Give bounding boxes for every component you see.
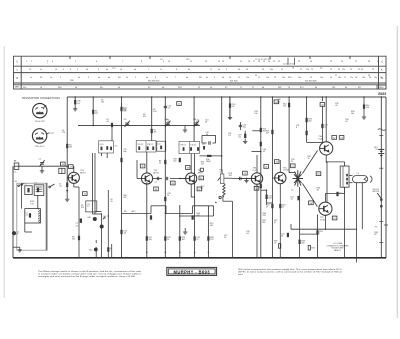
svg-text:5k6: 5k6 — [123, 110, 126, 112]
schematic right border — [385, 97, 387, 258]
TS1 voltage box left — [61, 162, 66, 166]
svg-text:0.1: 0.1 — [168, 108, 171, 110]
svg-text:L9: L9 — [262, 69, 264, 71]
wire C18 feed — [229, 97, 231, 119]
svg-text:↓: ↓ — [47, 62, 48, 65]
svg-text:27: 27 — [355, 61, 357, 63]
svg-text:L11: L11 — [202, 144, 205, 146]
svg-text:25: 25 — [196, 239, 198, 241]
capacitor C16t — [239, 125, 242, 126]
svg-text:19a: 19a — [374, 77, 377, 79]
svg-text:20: 20 — [268, 61, 270, 63]
svg-text:C9: C9 — [114, 145, 116, 147]
svg-text:12: 12 — [274, 243, 276, 245]
resistor R30 — [363, 97, 365, 104]
svg-text:28: 28 — [368, 61, 370, 63]
svg-text:OC81D: OC81D — [283, 170, 290, 172]
TS6 voltage boxes — [332, 136, 337, 140]
svg-text:9V: 9V — [375, 226, 378, 228]
agc comp a — [150, 215, 152, 219]
svg-text:L2: L2 — [55, 69, 57, 71]
wire af coupling2 — [232, 178, 254, 180]
node dot aerial-bus — [66, 165, 68, 167]
short link C19-R20 — [252, 130, 260, 132]
wire coupling TS2-TS3 — [153, 178, 162, 180]
svg-text:.01: .01 — [290, 199, 293, 201]
capacitor C15 — [164, 106, 167, 107]
svg-text:C: C — [381, 59, 383, 63]
IFT1 coil blob b — [147, 146, 149, 150]
resistor R35 — [120, 158, 122, 162]
agc line — [122, 213, 152, 215]
svg-text:L.W.: L.W. — [30, 203, 34, 205]
svg-text:B693: B693 — [378, 92, 386, 96]
svg-text:470: 470 — [196, 215, 199, 217]
table label column divider — [20, 56, 22, 89]
emitter resistor R11 — [146, 236, 148, 240]
junction dots on top rail — [121, 96, 382, 98]
svg-text:8d: 8d — [315, 87, 317, 89]
svg-text:6a: 6a — [106, 69, 108, 71]
wire bus x208 lower — [207, 206, 209, 258]
svg-text:.05: .05 — [106, 121, 109, 123]
wire det horizontal — [252, 151, 261, 153]
svg-text:6b: 6b — [134, 69, 136, 71]
svg-text:PAGE 7): PAGE 7) — [334, 249, 341, 252]
TS7 emitter wire — [324, 193, 326, 202]
capacitor C19 — [244, 134, 246, 138]
svg-text:2: 2 — [31, 61, 32, 63]
osc coil blob a — [101, 147, 103, 151]
svg-text:.04: .04 — [77, 103, 80, 105]
svg-text:120: 120 — [210, 239, 213, 241]
svg-text:50: 50 — [167, 195, 169, 197]
svg-text:C2: C2 — [155, 182, 157, 184]
svg-text:C6: C6 — [124, 119, 126, 121]
svg-text:.01: .01 — [232, 106, 235, 108]
svg-text:7: 7 — [148, 69, 149, 71]
svg-text:10: 10 — [246, 69, 248, 71]
svg-text:9a: 9a — [218, 69, 220, 71]
resistor R5 — [92, 110, 94, 114]
svg-text:R14: R14 — [288, 77, 291, 79]
volume jack circle — [219, 196, 221, 198]
svg-text:23: 23 — [298, 61, 300, 63]
svg-text:12: 12 — [258, 77, 260, 79]
wire TS5 base net — [272, 177, 274, 179]
svg-text:5: 5 — [75, 61, 76, 63]
svg-text:17B 2.2: 17B 2.2 — [180, 145, 186, 147]
svg-text:S1b: S1b — [58, 87, 61, 89]
svg-text:7d: 7d — [288, 87, 290, 89]
ground mid x185 — [184, 228, 186, 232]
svg-text:2.2: 2.2 — [87, 206, 89, 208]
electrolytic C41 — [100, 225, 104, 229]
svg-text:6d: 6d — [262, 87, 264, 89]
svg-text:T3: T3 — [350, 69, 352, 71]
left border ground stub — [13, 246, 20, 248]
svg-text:9V: 9V — [375, 149, 378, 151]
svg-text:17B 2.2: 17B 2.2 — [137, 144, 143, 146]
svg-text:LS: LS — [357, 173, 360, 175]
resistor R4b — [66, 144, 68, 148]
svg-text:9a: 9a — [206, 77, 208, 79]
svg-text:14: 14 — [338, 69, 340, 71]
svg-text:17B 2.2: 17B 2.2 — [190, 145, 196, 147]
transistor pinout TS1-TS2 — [33, 103, 47, 117]
svg-text:C15: C15 — [186, 59, 189, 61]
svg-text:10k: 10k — [254, 113, 257, 115]
svg-text:4d: 4d — [162, 87, 164, 89]
svg-text:S1c: S1c — [100, 87, 103, 89]
table row C entries — [26, 56, 379, 65]
svg-text:M1: M1 — [358, 87, 361, 89]
osc coil blob c — [110, 147, 112, 151]
svg-text:AGC: AGC — [132, 210, 137, 213]
wire C21 link — [261, 189, 267, 191]
svg-text:AE: AE — [14, 160, 17, 163]
svg-text:7: 7 — [122, 61, 123, 63]
svg-text:1a: 1a — [30, 77, 32, 79]
tuner inner wire c — [45, 183, 47, 250]
svg-text:.04: .04 — [195, 122, 198, 124]
TS5 voltage box above — [274, 160, 279, 164]
svg-text:6: 6 — [98, 69, 99, 71]
TS2 voltage box above — [140, 164, 145, 168]
svg-text:16: 16 — [205, 122, 207, 124]
tuner inner wire a — [20, 183, 22, 208]
svg-text:47k: 47k — [143, 116, 146, 118]
svg-text:25: 25 — [330, 61, 332, 63]
svg-text:rectangles and were measured o: rectangles and were measured on the B ra… — [38, 275, 136, 278]
svg-text:11: 11 — [281, 69, 283, 71]
battery rail mark t3 — [379, 221, 383, 223]
table row R entries — [30, 75, 382, 83]
svg-text:C2 C5 C9 C13 C17: C2 C5 C9 C13 C17 — [255, 59, 271, 61]
TS4 base stub — [238, 178, 251, 180]
svg-text:OC81: OC81 — [320, 219, 325, 221]
wire bus x165 — [164, 97, 166, 258]
svg-text:16: 16 — [292, 68, 294, 70]
transistor TS4 — [251, 173, 262, 184]
svg-text:+: + — [216, 193, 218, 195]
svg-text:18: 18 — [258, 61, 260, 63]
svg-text:5b: 5b — [86, 69, 88, 71]
loudspeaker caption block — [326, 243, 349, 252]
svg-text:400: 400 — [277, 101, 280, 103]
svg-text:T1: T1 — [300, 69, 302, 71]
battery rail mark t1 — [379, 135, 383, 137]
junction dot C39 — [74, 96, 76, 98]
svg-text:case: case — [50, 133, 54, 135]
svg-text:220: 220 — [301, 242, 304, 244]
svg-text:1: 1 — [319, 233, 320, 235]
IF transformer IFT1 box — [136, 141, 156, 152]
wire TS2 collector — [146, 152, 148, 173]
svg-text:2: 2 — [60, 77, 61, 79]
svg-text:8: 8 — [296, 127, 297, 129]
box marker 44 — [274, 100, 279, 104]
tuner box outline — [17, 183, 47, 250]
svg-text:15: 15 — [358, 69, 360, 71]
schematic top border — [67, 96, 386, 98]
svg-text:29: 29 — [368, 75, 370, 77]
svg-text:17: 17 — [344, 77, 346, 79]
wire bus x317 lower — [317, 214, 319, 257]
svg-text:MURPHY - B693: MURPHY - B693 — [174, 270, 211, 275]
svg-text:47: 47 — [266, 207, 268, 209]
svg-text:L: L — [17, 68, 19, 72]
capacitor C39 drop — [74, 97, 76, 100]
svg-text:VR1: VR1 — [178, 87, 182, 89]
battery BY1 cells — [378, 149, 384, 155]
svg-text:25: 25 — [224, 237, 226, 239]
emitter resistor C16 — [194, 236, 196, 240]
svg-text:4k7: 4k7 — [201, 164, 204, 166]
junction dot x93 — [92, 96, 94, 98]
svg-text:47k: 47k — [81, 207, 84, 209]
svg-text:3k3: 3k3 — [72, 239, 75, 241]
svg-text:C: C — [16, 59, 18, 63]
svg-text:8: 8 — [141, 61, 142, 63]
svg-text:17B 2.2: 17B 2.2 — [147, 144, 153, 146]
junction dots on bottom rail — [66, 257, 382, 259]
svg-text:16a: 16a — [338, 77, 341, 79]
svg-text:ward.: ward. — [238, 273, 244, 276]
aerial rail — [14, 165, 67, 167]
svg-text:2a: 2a — [50, 77, 52, 79]
volume bottom wire — [222, 196, 224, 201]
svg-text:15: 15 — [310, 77, 312, 79]
earphone squiggle upper — [378, 129, 386, 131]
TS3 voltage box left — [171, 181, 176, 185]
capacitor C7 — [66, 183, 68, 187]
volume takeoff wire — [224, 177, 233, 179]
coil L3 box — [34, 185, 44, 196]
transistor TS3 — [186, 173, 197, 184]
volume control R16 — [220, 174, 224, 183]
svg-text:26: 26 — [341, 61, 343, 63]
wire IFT1 primary feed — [151, 97, 153, 141]
IFT1 coil blob a — [138, 146, 140, 150]
resistor R6b — [164, 160, 166, 164]
svg-text:MISC: MISC — [15, 87, 20, 89]
wave switch S1a — [18, 185, 20, 187]
component location table frame — [14, 56, 387, 89]
resistor R26 — [306, 118, 308, 122]
svg-text:R16 R18 R20: R16 R18 R20 — [148, 80, 159, 82]
wire bus x180 lower — [179, 205, 181, 258]
IFT2 side part — [203, 146, 205, 150]
capacitor C7b — [80, 219, 82, 223]
svg-text:2d: 2d — [75, 87, 77, 89]
svg-text:a b c: a b c — [112, 68, 116, 70]
TS6 emitter wire — [325, 155, 327, 162]
svg-text:X1: X1 — [198, 87, 200, 89]
svg-text:1k8: 1k8 — [229, 175, 232, 177]
svg-text:12a: 12a — [266, 77, 269, 79]
svg-text:50: 50 — [281, 236, 283, 238]
capacitor C14 — [209, 141, 210, 144]
svg-text:10a: 10a — [270, 69, 273, 71]
svg-text:AF117: AF117 — [198, 171, 203, 174]
svg-text:14a: 14a — [298, 77, 301, 79]
svg-text:C46: C46 — [87, 217, 90, 219]
page scan left edge — [3, 46, 5, 298]
thermistor blob — [336, 192, 338, 196]
resistor R14 blob — [288, 103, 290, 107]
svg-text:10k: 10k — [351, 113, 354, 115]
svg-text:5a: 5a — [126, 77, 128, 79]
gang section C6 — [125, 121, 130, 127]
svg-text:25: 25 — [291, 161, 293, 163]
table right label column divider — [378, 56, 380, 89]
title box MURPHY B693 — [167, 267, 217, 275]
svg-text:R32: R32 — [311, 247, 314, 249]
output transformer T2 — [340, 166, 349, 187]
aerial coil AE — [14, 163, 19, 169]
svg-text:.04: .04 — [59, 185, 62, 187]
svg-text:11a: 11a — [246, 77, 249, 79]
feedback line — [291, 228, 357, 230]
coil L3 core — [36, 186, 43, 188]
svg-text:3d: 3d — [118, 87, 120, 89]
svg-text:9: 9 — [226, 69, 227, 71]
svg-text:TS3, 4 & 5: TS3, 4 & 5 — [35, 146, 45, 148]
wire main bus x121 — [121, 97, 123, 258]
osc coil blob b — [106, 146, 108, 150]
svg-text:1k: 1k — [159, 163, 161, 165]
svg-text:BY1: BY1 — [300, 87, 304, 89]
svg-text:LS1: LS1 — [332, 87, 335, 89]
table row line under C row — [14, 65, 387, 67]
box marker 31 top — [177, 102, 182, 106]
TS1 emitter wire — [73, 183, 75, 187]
svg-text:R30: R30 — [70, 80, 73, 82]
notes text left block — [38, 270, 142, 278]
capacitor C39 — [74, 100, 76, 104]
svg-text:.04: .04 — [205, 134, 208, 136]
resistor R39 — [260, 142, 262, 146]
svg-text:FS1: FS1 — [278, 87, 281, 89]
svg-text:27: 27 — [335, 75, 337, 77]
wire TS6 top link — [307, 141, 323, 143]
svg-text:3k3: 3k3 — [308, 121, 311, 123]
svg-text:13a: 13a — [282, 77, 285, 79]
wire preamp feed x272 — [271, 97, 273, 178]
gang ground stub — [184, 126, 186, 130]
svg-text:T1: T1 — [291, 190, 293, 192]
coil L3 blob — [37, 188, 39, 192]
transistor TS1 — [68, 172, 79, 183]
TS5 collector wire — [279, 160, 281, 172]
tuner inner wire b — [37, 195, 39, 208]
svg-text:8a: 8a — [186, 77, 188, 79]
resistor R6 left — [78, 236, 80, 240]
transistor pinout TS3-TS5 — [32, 129, 49, 143]
svg-text:OA70: OA70 — [206, 160, 211, 163]
resistor R29 blob — [306, 131, 308, 135]
wire C19 top — [244, 131, 246, 134]
svg-text:.01: .01 — [228, 135, 231, 137]
resistor R8 mid — [120, 230, 122, 234]
svg-text:13: 13 — [274, 77, 276, 79]
svg-text:R1: R1 — [40, 77, 42, 79]
coil lower blob — [29, 213, 31, 217]
svg-text:3: 3 — [88, 77, 89, 79]
wire detector down — [221, 170, 223, 172]
capacitor C14 loop — [202, 134, 216, 136]
svg-text:8k2: 8k2 — [262, 222, 265, 224]
IFT1 coil blob c — [152, 146, 154, 150]
gang section C11 — [194, 121, 199, 127]
IFT2 coil blob c — [197, 147, 199, 151]
svg-text:X2: X2 — [339, 193, 341, 195]
IFT2 coil blob a — [183, 147, 185, 151]
svg-text:82: 82 — [374, 234, 376, 236]
svg-text:12a: 12a — [342, 69, 345, 71]
diode X1A — [200, 155, 222, 157]
small box twin — [59, 168, 65, 173]
svg-text:10k: 10k — [220, 172, 223, 174]
svg-text:11: 11 — [190, 61, 192, 63]
svg-text:L7: L7 — [210, 69, 212, 71]
emitter resistor R15 — [179, 236, 181, 240]
svg-text:24: 24 — [310, 61, 312, 63]
svg-text:R: R — [381, 77, 383, 80]
svg-text:R4: R4 — [118, 77, 120, 79]
svg-text:6: 6 — [96, 61, 97, 63]
wire battery rail x381 — [380, 97, 382, 258]
svg-text:1k: 1k — [201, 188, 203, 190]
TS6 collector wire — [325, 97, 327, 142]
svg-text:1: 1 — [26, 61, 27, 63]
wire TS2 emitter leg — [146, 182, 148, 258]
svg-text:47: 47 — [274, 222, 276, 224]
svg-text:5: 5 — [135, 77, 136, 79]
svg-text:9: 9 — [163, 61, 164, 63]
transistor TS7 — [319, 202, 332, 215]
svg-text:13: 13 — [218, 61, 220, 63]
driver transformer T1 — [293, 170, 303, 187]
left cluster wires — [101, 214, 103, 258]
svg-text:AF117: AF117 — [153, 171, 158, 174]
svg-text:100: 100 — [268, 197, 271, 199]
svg-text:R21 R23: R21 R23 — [230, 80, 237, 82]
wire detector bus x222 — [221, 97, 223, 171]
svg-text:10: 10 — [168, 61, 170, 63]
svg-text:22: 22 — [278, 61, 280, 63]
wire x93 osc drop — [92, 97, 94, 126]
TS7 collector wire — [324, 215, 326, 229]
gang trimmer C5 blob — [111, 123, 113, 127]
svg-text:L4 L5: L4 L5 — [99, 144, 103, 146]
switch arrow right — [50, 184, 55, 187]
wire transformer tail — [299, 187, 301, 234]
TS2 base wire — [137, 178, 141, 180]
junction dots bottom cluster — [101, 213, 102, 214]
TS7 voltage box below — [332, 216, 337, 220]
resistor R30 ground — [362, 117, 366, 119]
electrolytic C46 — [93, 217, 97, 221]
svg-text:1a: 1a — [40, 69, 42, 71]
table row line above MISC row — [14, 84, 387, 86]
svg-text:.01: .01 — [263, 151, 266, 153]
TS5 voltage box above2 — [291, 164, 296, 168]
svg-text:30p: 30p — [123, 151, 126, 153]
wire osc right leg — [94, 153, 96, 214]
svg-text:L2: L2 — [25, 184, 27, 186]
